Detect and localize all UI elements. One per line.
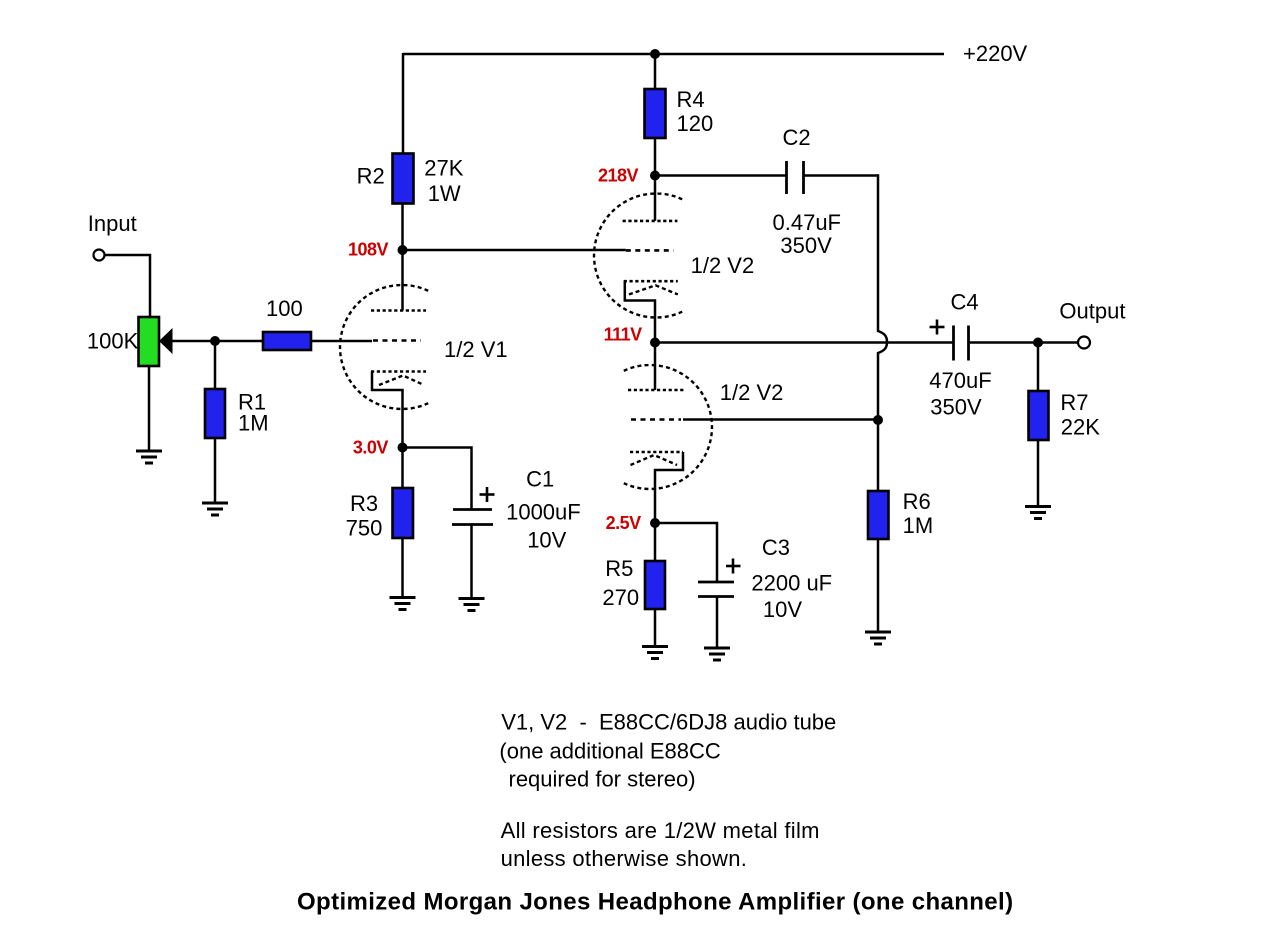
capacitor C1 plates [452, 510, 493, 525]
svg-text:100K: 100K [87, 328, 139, 353]
resistor 100 body (grid stopper) [263, 332, 311, 350]
wire: R2 to 108V node [401, 204, 404, 251]
wire: rail down to R2 [402, 53, 405, 154]
wire: junction down to R1 [214, 341, 217, 389]
wire: wiper to 100 resistor [173, 340, 264, 343]
wire: junction down to R7 [1037, 343, 1040, 392]
junction on rail at R4 [650, 49, 660, 59]
svg-text:108V: 108V [348, 240, 389, 260]
wire: 218V node to C2 [655, 174, 786, 177]
capacitor C3 plates [698, 582, 734, 597]
wire: R7 to ground [1037, 440, 1040, 506]
svg-text:R5: R5 [605, 556, 633, 581]
tube V1 envelope [340, 285, 428, 409]
wire: R6 to ground [877, 539, 880, 632]
svg-text:R2: R2 [357, 164, 385, 189]
resistor R2 body [393, 154, 414, 204]
wire: 3.0V node down to R3 [401, 448, 404, 489]
V2b cathode line [630, 451, 683, 454]
capacitor C2 plates [787, 161, 804, 194]
wire: V2b grid to junction [683, 418, 878, 421]
V2a plate [623, 220, 678, 223]
svg-text:111V: 111V [604, 325, 643, 345]
V2a plate lead [654, 176, 657, 221]
wire: 3.0V node to C1 [403, 448, 472, 510]
svg-text:120: 120 [677, 111, 714, 136]
node 2.5V junction [650, 518, 660, 528]
C1 polarity plus [480, 487, 495, 502]
V2b grid [631, 418, 681, 421]
svg-text:350V: 350V [780, 233, 832, 258]
svg-text:350V: 350V [930, 394, 982, 419]
V2a heater caret [629, 285, 678, 294]
svg-text:27K: 27K [424, 156, 463, 181]
pot wiper arrow [159, 328, 173, 354]
resistor R6 body [868, 491, 889, 539]
svg-text:unless otherwise shown.: unless otherwise shown. [501, 846, 748, 871]
wire: 111V node to C4 [655, 341, 953, 344]
ground under pot [136, 451, 162, 463]
svg-text:3.0V: 3.0V [353, 438, 389, 458]
wire: C4 to output [969, 341, 1078, 344]
node output junction [1033, 338, 1043, 348]
svg-text:Optimized Morgan Jones Headpho: Optimized Morgan Jones Headphone Amplifi… [297, 889, 1013, 916]
node 108V junction [398, 245, 408, 255]
V1 cathode line [371, 370, 426, 373]
svg-text:1M: 1M [903, 513, 934, 538]
svg-text:1/2 V1: 1/2 V1 [444, 337, 508, 362]
wire: junction down to R6 [877, 420, 880, 491]
V1 cathode lead [372, 372, 403, 448]
V2b heater caret [631, 455, 678, 465]
svg-text:750: 750 [346, 515, 383, 540]
svg-text:R4: R4 [677, 87, 705, 112]
svg-text:1000uF: 1000uF [506, 500, 581, 525]
svg-text:C4: C4 [951, 289, 979, 314]
ground under R6 [865, 632, 891, 644]
wire: R4 to 218V node [654, 138, 657, 176]
C4 polarity plus [930, 320, 945, 335]
wire: input to pot [105, 255, 151, 317]
V2b plate lead [654, 343, 657, 391]
svg-text:C2: C2 [783, 125, 811, 150]
svg-text:Input: Input [88, 211, 137, 236]
V2a cathode line [624, 280, 678, 283]
wire: C2 right to corner [804, 174, 879, 177]
ground under C1 [459, 599, 485, 611]
wire: rail down to R4 [654, 54, 657, 89]
svg-text:2.5V: 2.5V [606, 513, 642, 533]
input terminal circle [94, 250, 105, 261]
svg-text:2200 uF: 2200 uF [751, 570, 832, 595]
ground under R3 [390, 598, 416, 610]
svg-text:10V: 10V [763, 597, 802, 622]
wire: pot to ground [148, 366, 151, 450]
svg-text:0.47uF: 0.47uF [773, 210, 842, 235]
C3 polarity plus [726, 559, 741, 574]
resistor R7 body [1029, 391, 1049, 440]
resistor R1 body [205, 389, 225, 438]
svg-text:+220V: +220V [963, 41, 1028, 66]
capacitor C4 plates [954, 326, 969, 361]
wire: 108V node to V2a grid [403, 249, 626, 252]
V2b plate [628, 389, 686, 392]
svg-text:1M: 1M [238, 411, 269, 436]
output terminal circle [1078, 337, 1090, 349]
V2a cathode lead [625, 281, 655, 342]
wire: C1 to ground [470, 525, 473, 599]
wire: down from C2 corner with hop over output wire [878, 174, 887, 420]
svg-text:218V: 218V [598, 166, 639, 186]
tube V2b envelope [624, 365, 712, 489]
svg-text:C3: C3 [762, 535, 790, 560]
svg-text:10V: 10V [527, 528, 566, 553]
svg-text:270: 270 [602, 585, 639, 610]
svg-text:R3: R3 [350, 491, 378, 516]
node junction at R1 [210, 336, 220, 346]
potentiometer 100K body [139, 317, 160, 366]
resistor R4 body [645, 89, 666, 138]
wire: 108V node down to V1 plate [401, 250, 404, 311]
V2b cathode lead [655, 452, 683, 523]
node 111V junction [650, 338, 660, 348]
svg-text:V1, V2 - E88CC/6DJ8 audio tu: V1, V2 - E88CC/6DJ8 audio tube [501, 710, 836, 735]
ground under R5 [642, 647, 668, 659]
V2a grid [626, 249, 674, 252]
resistor R3 body [393, 488, 414, 538]
svg-text:required for stereo): required for stereo) [509, 766, 696, 791]
wire: R3 to ground [401, 538, 404, 597]
svg-text:470uF: 470uF [929, 368, 991, 393]
svg-text:C1: C1 [526, 467, 554, 492]
wire: +220V top supply rail [403, 53, 944, 56]
wire: R5 to ground [654, 609, 657, 646]
svg-text:1W: 1W [428, 181, 461, 206]
svg-text:(one additional E88CC: (one additional E88CC [499, 738, 720, 763]
node 218V junction [650, 171, 660, 181]
V1 heater caret [379, 376, 424, 386]
node junction at V2b grid [873, 415, 883, 425]
svg-text:Output: Output [1059, 299, 1125, 324]
svg-text:All resistors are 1/2W metal f: All resistors are 1/2W metal film [501, 818, 820, 843]
svg-text:22K: 22K [1061, 414, 1100, 439]
wire: 100 to V1 grid [311, 340, 372, 343]
svg-text:R6: R6 [903, 489, 931, 514]
wire: C3 to ground [716, 597, 719, 649]
svg-text:1/2 V2: 1/2 V2 [691, 253, 755, 278]
V1 grid [373, 339, 421, 342]
ground under C3 [704, 648, 730, 660]
wire: R1 to ground [214, 438, 217, 502]
wire: 2.5V node to C3 [655, 523, 717, 582]
wire: 2.5V node down to R5 [654, 523, 657, 561]
svg-text:100: 100 [266, 296, 303, 321]
svg-text:R7: R7 [1060, 390, 1088, 415]
tube V2a envelope [594, 194, 682, 318]
resistor R5 body [645, 561, 665, 609]
svg-text:1/2 V2: 1/2 V2 [720, 380, 784, 405]
V1 plate (anode) [371, 309, 426, 312]
ground under R7 [1025, 507, 1051, 519]
ground under R1 [202, 503, 228, 515]
node 3.0V junction [398, 443, 408, 453]
